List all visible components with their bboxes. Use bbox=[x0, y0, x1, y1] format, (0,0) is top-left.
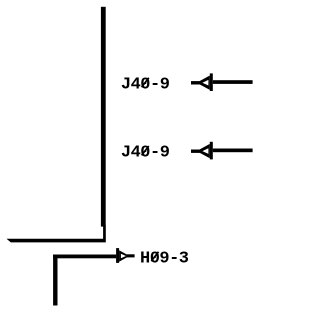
wire W4 (lower horizontal wire) bbox=[53, 255, 116, 259]
off-page connector arrow to J40-9 (row 2): white wedge inside triangle bbox=[202, 148, 208, 154]
svg-text:J40-9: J40-9 bbox=[121, 144, 170, 163]
wire W3 (horizontal wire to left edge, chamfered left cap) bbox=[7, 239, 106, 243]
off-page connector arrow to H09-3: base bar bbox=[116, 248, 119, 263]
off-page connector arrow to H09-3: white wedge inside triangle bbox=[121, 254, 126, 259]
off-page connector arrow to J40-9 (row 2): tip stub bbox=[191, 150, 200, 153]
wire W1 (main vertical bus line) bbox=[101, 7, 106, 227]
off-page connector arrow to J40-9 (row 1): base bar bbox=[210, 73, 213, 91]
off-page connector arrow to H09-3: solid triangle bbox=[119, 250, 129, 262]
svg-text:H09-3: H09-3 bbox=[140, 249, 189, 268]
off-page connector arrow to J40-9 (row 1): tip stub bbox=[191, 81, 200, 84]
off-page connector arrow to H09-3: tip stub bbox=[127, 254, 135, 257]
slashed zero of H09-3 bbox=[151, 252, 158, 261]
slashed zero of J40-9 (row 1) bbox=[142, 78, 149, 87]
wire to arrow (row 2) bbox=[213, 149, 253, 153]
svg-text:J40-9: J40-9 bbox=[121, 75, 170, 94]
off-page connector arrow to J40-9 (row 2): base bar bbox=[210, 142, 213, 160]
wire W5 (lower vertical wire) bbox=[53, 255, 57, 306]
slashed zero of J40-9 (row 2) bbox=[142, 146, 149, 155]
off-page connector arrow to J40-9 (row 1): white wedge inside triangle bbox=[202, 80, 208, 86]
off-page connector arrow to J40-9 (row 1): solid triangle bbox=[197, 76, 210, 90]
wire to arrow (row 1) bbox=[213, 80, 253, 84]
off-page connector arrow to J40-9 (row 2): solid triangle bbox=[197, 144, 210, 158]
wire W2 (short vertical stub joining bus to lower horizontal wire) bbox=[103, 226, 106, 240]
